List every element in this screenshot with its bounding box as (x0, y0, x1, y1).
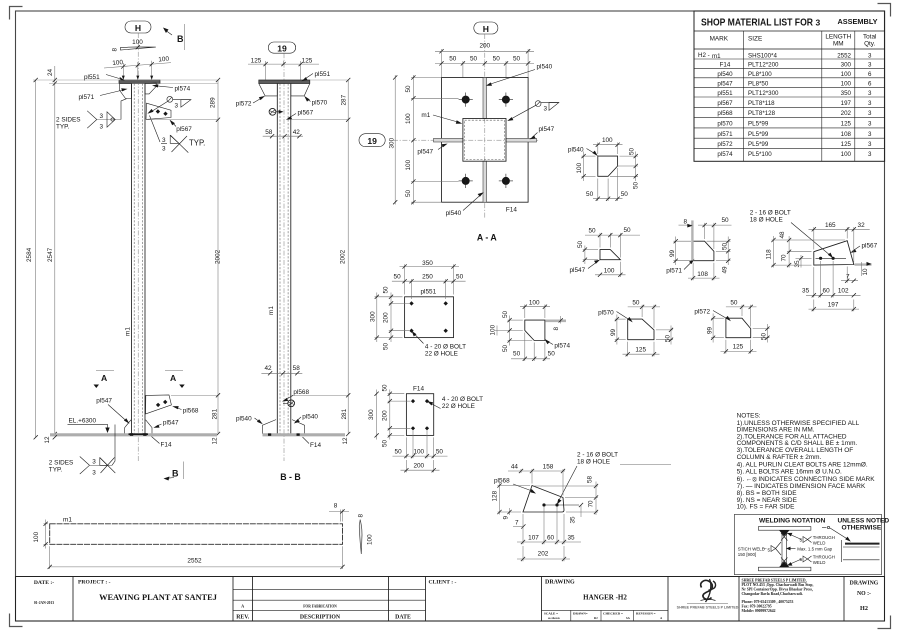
svg-text:B - B: B - B (280, 472, 301, 482)
svg-text:8). BS = BOTH SIDE: 8). BS = BOTH SIDE (737, 490, 798, 497)
svg-text:REV.: REV. (236, 614, 249, 620)
svg-text:108: 108 (841, 131, 852, 138)
A-A section: base plate F14 outline (442, 78, 529, 203)
m1 member: thin plate edge view (needle) (358, 514, 374, 555)
svg-text:44: 44 (511, 464, 519, 471)
svg-text:4 - 20 Ø BOLT: 4 - 20 Ø BOLT (442, 396, 483, 403)
svg-text:35: 35 (567, 535, 575, 542)
svg-text:9: 9 (503, 516, 510, 520)
svg-text:100: 100 (602, 137, 613, 144)
svg-text:pl540: pl540 (717, 71, 733, 78)
svg-text:PLT12*200: PLT12*200 (748, 61, 779, 68)
detail pl567: dim 197 bottom (809, 300, 860, 312)
left elevation: label pl547 (upper left) with leader (96, 398, 129, 424)
A-A section: anchor bolts (459, 93, 513, 189)
svg-text:Fax: 079-30022795: Fax: 079-30022795 (742, 605, 772, 609)
svg-text:50: 50 (633, 181, 640, 189)
svg-text:58: 58 (265, 129, 273, 136)
svg-text:107: 107 (528, 535, 539, 542)
B-B elevation: wing plates pl572/pl570 below plate (259, 84, 310, 96)
svg-text:287: 287 (341, 94, 348, 105)
svg-text:50: 50 (722, 242, 729, 250)
svg-text:281: 281 (341, 408, 348, 419)
svg-text:pl567: pl567 (862, 242, 878, 249)
svg-text:50: 50 (548, 350, 556, 357)
svg-text:pl540: pl540 (537, 64, 553, 71)
left elevation: label pl574 with leader (152, 84, 191, 92)
left elevation: gusset pl567 (right, slanted) (146, 103, 171, 119)
svg-text:pl547: pl547 (417, 149, 433, 156)
svg-text:108: 108 (697, 271, 708, 278)
svg-text:PL8*50: PL8*50 (748, 80, 769, 87)
svg-text:pl568: pl568 (183, 408, 199, 415)
svg-text:202: 202 (841, 110, 852, 117)
svg-text:5: 5 (768, 548, 771, 553)
B-B elevation: dims 42 58 (bottom) (261, 365, 302, 375)
B-B elevation: dims 58 42 (top) (263, 129, 303, 139)
left elevation: section marks A-A (94, 371, 185, 389)
svg-text:Phone: 079-65413309 , 40075253: Phone: 079-65413309 , 40075253 (742, 600, 794, 604)
svg-text:19: 19 (367, 136, 377, 146)
svg-text:MARK: MARK (710, 36, 729, 43)
A-A section: horizontal centerline (393, 139, 538, 141)
svg-text:50: 50 (395, 449, 403, 456)
svg-text:H2 -: H2 - (698, 52, 710, 59)
svg-text:50: 50 (513, 350, 521, 357)
company address block (742, 579, 814, 614)
left elevation: extension lines at plate level (33, 80, 218, 84)
left elevation: section bubble H (125, 21, 151, 33)
A-A section: bubble 19 (359, 134, 385, 147)
m1 member: dim 2552 bottom (48, 546, 345, 569)
welding notation: through weld top (787, 533, 835, 545)
svg-text:3: 3 (100, 113, 104, 120)
A-A section: bubble H (474, 22, 498, 34)
svg-text:FOR FABRICATION: FOR FABRICATION (303, 605, 337, 609)
svg-text:50: 50 (586, 191, 594, 198)
svg-text:100: 100 (112, 59, 124, 67)
detail pl574: dim 100 top (520, 299, 550, 318)
B-B elevation: label pl570 with leader (304, 96, 327, 107)
svg-text:2 - 16 Ø BOLT: 2 - 16 Ø BOLT (577, 451, 618, 458)
svg-text:NO :-: NO :- (857, 591, 871, 597)
svg-text:6). ←⦻ INDICATES CONNECTING SI: 6). ←⦻ INDICATES CONNECTING SIDE MARK (737, 476, 876, 483)
detail pl547: dims 50 50 top (585, 227, 640, 257)
svg-text:WELD: WELD (813, 540, 826, 545)
company logo (677, 579, 739, 610)
svg-text:100: 100 (576, 162, 583, 173)
svg-text:PLT12*300: PLT12*300 (748, 90, 779, 97)
svg-text:pl572: pl572 (694, 309, 710, 316)
svg-text:60: 60 (823, 288, 831, 295)
svg-text:PROJECT : -: PROJECT : - (78, 580, 111, 586)
svg-text:as shown: as shown (548, 616, 560, 620)
svg-text:125: 125 (841, 121, 852, 128)
left elevation: top plate pl551 (119, 80, 160, 84)
svg-text:H2: H2 (860, 605, 868, 612)
svg-text:TYP.: TYP. (49, 467, 63, 474)
svg-text:pl551: pl551 (421, 289, 437, 296)
svg-text:THROUGH: THROUGH (813, 535, 835, 540)
svg-text:100: 100 (841, 80, 852, 87)
svg-text:m1: m1 (268, 306, 275, 315)
svg-text:3: 3 (92, 469, 96, 476)
detail pl568: dims 44 158 top (508, 464, 565, 496)
svg-text:3: 3 (175, 103, 179, 110)
svg-text:F14: F14 (506, 207, 517, 214)
svg-text:m1: m1 (63, 517, 72, 524)
svg-text:pl547: pl547 (717, 80, 733, 87)
svg-text:42: 42 (293, 129, 301, 136)
svg-text:F14: F14 (310, 442, 321, 449)
left elevation: base plate / foundation line (50, 433, 217, 436)
detail pl547: outline (570, 250, 621, 274)
title block texts (34, 580, 879, 621)
notes text block (737, 413, 876, 511)
svg-text:4 - 20 Ø BOLT: 4 - 20 Ø BOLT (425, 343, 466, 350)
svg-text:125: 125 (251, 58, 262, 65)
svg-text:99: 99 (610, 328, 617, 336)
svg-text:SHOP MATERIAL LIST FOR: SHOP MATERIAL LIST FOR (701, 17, 813, 29)
left elevation: label pl571 with leader (79, 88, 128, 101)
svg-text:202: 202 (538, 550, 549, 557)
svg-text:50: 50 (449, 55, 457, 62)
svg-text:5). ALL BOLTS ARE 16mm Ø U.N.O: 5). ALL BOLTS ARE 16mm Ø U.N.O. (737, 469, 842, 476)
svg-text:100: 100 (529, 299, 540, 306)
svg-text:pl571: pl571 (79, 94, 95, 101)
svg-text:8: 8 (553, 327, 560, 331)
svg-text:ASSEMBLY: ASSEMBLY (838, 17, 878, 26)
svg-text:50: 50 (502, 344, 509, 352)
svg-text:300: 300 (389, 137, 396, 148)
svg-text:50: 50 (722, 217, 730, 224)
svg-text:3: 3 (868, 141, 872, 148)
detail pl547: dim 50 left (577, 240, 598, 264)
svg-text:pl572: pl572 (236, 101, 252, 108)
svg-text:50: 50 (405, 85, 412, 93)
svg-text:pl551: pl551 (84, 74, 100, 81)
svg-text:12: 12 (44, 436, 51, 444)
detail pl567: bottom dims 35 60 102 (802, 261, 860, 298)
svg-text:125: 125 (733, 344, 744, 351)
m1 member: dim 100 left (33, 520, 48, 549)
left elevation: column centerline (137, 33, 139, 461)
welding notation: flange plates and web (758, 527, 811, 571)
B-B elevation: bottom brackets pl540 (263, 420, 305, 434)
svg-text:50: 50 (513, 55, 521, 62)
svg-text:158: 158 (543, 464, 554, 471)
svg-text:A - A: A - A (477, 233, 498, 243)
svg-text:3: 3 (868, 90, 872, 97)
svg-text:pl571: pl571 (666, 267, 682, 274)
left elevation: bottom gusset pl547 left (125, 420, 131, 434)
detail pl567: dim 7 (841, 267, 858, 283)
svg-text:01-JAN-2013: 01-JAN-2013 (34, 601, 54, 605)
detail pl574: left dims 50 100 50 (490, 310, 533, 352)
svg-text:50: 50 (623, 227, 631, 234)
B-B elevation: connecting side mark (bottom) (283, 400, 295, 407)
B-B elevation: label pl572 with leader (236, 96, 265, 108)
svg-text:2584: 2584 (26, 247, 33, 262)
svg-text:100: 100 (490, 324, 497, 335)
svg-text:100: 100 (604, 267, 615, 274)
detail F14: bolt note (427, 396, 483, 410)
detail pl551: outline with bolts (405, 289, 454, 338)
welding notation box (734, 515, 889, 575)
detail F14: bottom dims 50 100 50 / 200 (393, 430, 448, 472)
detail pl551: dims 50 250 50 (392, 274, 466, 299)
svg-text:150 [900]: 150 [900] (738, 552, 756, 557)
detail pl574: edge plate 8 (546, 316, 567, 331)
detail pl571: outline (666, 241, 714, 274)
B-B elevation: label pl540 right with leader (294, 414, 319, 424)
svg-text:A: A (241, 604, 244, 609)
svg-text:pl547: pl547 (163, 420, 179, 427)
left elevation: dim line right (289/2002/281) (145, 78, 222, 436)
svg-text:SHS100*4: SHS100*4 (748, 52, 777, 59)
svg-text:125: 125 (302, 58, 313, 65)
detail pl574: outline (525, 320, 571, 349)
svg-text:PL5*99: PL5*99 (748, 141, 769, 148)
detail pl547: dim 100 bottom (595, 262, 626, 277)
detail pl540: outline (568, 147, 618, 177)
svg-text:125: 125 (841, 141, 852, 148)
svg-text:pl570: pl570 (717, 121, 733, 128)
svg-text:300: 300 (370, 311, 377, 322)
svg-text:TYP.: TYP. (56, 124, 70, 131)
svg-text:50: 50 (665, 334, 672, 342)
left elevation: dim 12 right (212, 437, 219, 445)
left elevation: label F14 with leader (152, 437, 172, 449)
svg-text:pl567: pl567 (176, 126, 192, 133)
A-A section: left dims 50 100 100 50 (405, 75, 459, 205)
svg-text:Nr SPI ContainerOpp. Divya Bha: Nr SPI ContainerOpp. Divya Bhaskar Press… (742, 588, 813, 592)
detail pl540: dim 100 left (576, 152, 596, 182)
svg-text:F14: F14 (161, 442, 172, 449)
detail pl570: outline (598, 309, 654, 339)
left elevation: view arrow B (bottom) (164, 462, 184, 481)
svg-text:100: 100 (132, 39, 143, 46)
svg-text:pl567: pl567 (717, 100, 733, 107)
svg-text:pl540: pl540 (236, 416, 252, 423)
detail pl567: dims 165 32 top (809, 222, 870, 262)
svg-text:50: 50 (394, 274, 402, 281)
svg-text:100: 100 (405, 113, 412, 124)
detail pl572: dim 50 right (753, 324, 770, 343)
svg-text:2552: 2552 (837, 52, 851, 59)
svg-text:PL5*99: PL5*99 (748, 121, 769, 128)
B-B elevation: section bubble 19 (268, 42, 295, 54)
svg-text:SHREE PREFAB STEELS P LIMITED: SHREE PREFAB STEELS P LIMITED (677, 606, 739, 610)
left elevation: weld symbol 2 SIDES TYP (top left) (56, 99, 127, 131)
detail pl570: dim 50 right (656, 326, 673, 345)
A-A section: label pl540 (top) with leader (486, 64, 553, 86)
svg-text:250: 250 (422, 274, 433, 281)
svg-text:HANGER -H2: HANGER -H2 (583, 594, 627, 602)
svg-text:50: 50 (383, 342, 390, 350)
detail pl572: dim 99 left (707, 314, 724, 343)
svg-text:100: 100 (33, 531, 40, 542)
detail pl567: edge plate with dim 10 (855, 262, 872, 276)
table rows (698, 52, 872, 158)
left elevation: dim 2547 (47, 247, 57, 436)
svg-text:pl551: pl551 (315, 71, 331, 78)
left elevation: column shaft m1 (132, 84, 146, 434)
svg-text:50: 50 (405, 189, 412, 197)
detail pl568: bottom dims 107 60 35 (517, 507, 581, 544)
svg-text:18 Ø HOLE: 18 Ø HOLE (750, 216, 783, 223)
B-B elevation: label F14 with leader (303, 437, 322, 449)
svg-text:F14: F14 (720, 61, 731, 68)
welding notation: max gap note (786, 546, 833, 551)
svg-text:50: 50 (456, 274, 464, 281)
A-A section: label m1 with leader (421, 112, 462, 124)
detail pl571: dim 50 top (698, 217, 732, 249)
svg-text:289: 289 (210, 97, 217, 108)
svg-text:SHREE PREFAB STEELS P LIMITED,: SHREE PREFAB STEELS P LIMITED, (742, 579, 807, 583)
left elevation: top dims 100 100 (104, 45, 171, 80)
detail pl568: outline (494, 478, 579, 512)
detail pl568: bolt note (557, 451, 671, 505)
svg-text:24: 24 (47, 68, 54, 76)
svg-text:WELD: WELD (813, 560, 826, 565)
svg-text:CLIENT : -: CLIENT : - (429, 580, 457, 586)
svg-text:A: A (101, 373, 107, 383)
B-B elevation: label pl568 with leader (282, 389, 309, 402)
svg-text:pl568: pl568 (293, 389, 309, 396)
left elevation: label pl551 with leader (84, 74, 125, 81)
A-A section: label pl547 (left) with leader (417, 144, 447, 156)
svg-text:2552: 2552 (187, 558, 202, 565)
m1 member elevation: outline (50, 517, 343, 545)
svg-text:10: 10 (862, 268, 869, 276)
left elevation: label pl567 with leader (170, 120, 193, 134)
left elevation: backing plate edge view with dim 8 (112, 39, 156, 52)
svg-text:3: 3 (868, 110, 872, 117)
svg-text:Qty.: Qty. (864, 41, 875, 48)
svg-text:10). FS = FAR SIDE: 10). FS = FAR SIDE (737, 504, 795, 511)
svg-text:WELDING NOTATION: WELDING NOTATION (759, 517, 826, 524)
left elevation: view arrow B (top) (163, 24, 185, 50)
welding notation: stich weld callout (738, 542, 781, 557)
svg-text:281: 281 (212, 408, 219, 419)
svg-text:DATE: DATE (395, 614, 411, 620)
svg-text:100: 100 (158, 56, 170, 64)
svg-text:200: 200 (413, 463, 424, 470)
svg-text:DRAWING: DRAWING (545, 580, 575, 586)
svg-text:pl568: pl568 (717, 110, 733, 117)
svg-text:197: 197 (828, 302, 839, 309)
svg-text:350: 350 (841, 90, 852, 97)
svg-text:35: 35 (802, 288, 810, 295)
svg-text:3: 3 (868, 131, 872, 138)
svg-text:6: 6 (868, 71, 872, 78)
detail pl568: left dims 128 9 7 (492, 482, 531, 529)
svg-text:NOTES:: NOTES: (737, 413, 761, 420)
svg-text:DESCRIPTION: DESCRIPTION (300, 614, 341, 620)
svg-text:pl568: pl568 (494, 478, 510, 485)
svg-text:50: 50 (629, 147, 636, 155)
svg-text:pl572: pl572 (717, 141, 733, 148)
svg-text:RJ: RJ (594, 616, 598, 620)
svg-text:COLUMN & RAFTER ± 2mm.: COLUMN & RAFTER ± 2mm. (737, 454, 822, 461)
svg-text:MM: MM (833, 41, 844, 48)
svg-text:pl570: pl570 (598, 309, 614, 316)
svg-text:PLOT NO.453 ,Opp. Chacharwadi: PLOT NO.453 ,Opp. Chacharwadi Bus Stop, (742, 583, 814, 587)
svg-text:pl547: pl547 (570, 267, 586, 274)
svg-text:60: 60 (547, 535, 555, 542)
svg-text:200: 200 (479, 43, 490, 50)
detail pl551: dim 350 top (400, 260, 460, 295)
svg-text:3: 3 (162, 146, 166, 153)
detail pl572: dim 125 bottom (721, 340, 757, 354)
svg-text:50: 50 (632, 299, 640, 306)
svg-text:49: 49 (722, 266, 729, 274)
svg-text:pl574: pl574 (175, 86, 191, 93)
svg-text:Total: Total (863, 34, 877, 41)
svg-text:3: 3 (100, 124, 104, 131)
detail pl551: bolt note (412, 331, 467, 358)
detail pl572: dim 50 top (726, 299, 757, 326)
A-A section: dims 50 50 50 50 (435, 55, 534, 77)
svg-text:TYP.: TYP. (189, 139, 205, 148)
svg-text:3: 3 (868, 100, 872, 107)
B-B elevation: label pl540 left with leader (236, 416, 263, 425)
left elevation: dim 2584 (26, 78, 38, 440)
svg-text:m1: m1 (421, 112, 430, 119)
svg-text:LENGTH: LENGTH (825, 34, 851, 41)
svg-text:125: 125 (635, 347, 646, 354)
left elevation: weld circle symbol with flag 3 (147, 96, 191, 113)
detail pl570: dim 50 top (628, 299, 660, 327)
left elevation: gusset pl571 (top left) (120, 84, 132, 99)
svg-text:PL8*100: PL8*100 (748, 71, 772, 78)
svg-text:EL.+6300: EL.+6300 (69, 418, 97, 425)
detail pl570: dim 125 bottom (623, 342, 660, 357)
A-A section: vertical plate pl540 strips (483, 78, 487, 203)
svg-text:50: 50 (493, 55, 501, 62)
svg-text:102: 102 (838, 288, 849, 295)
svg-text:pl540: pl540 (302, 414, 318, 421)
svg-text:3: 3 (92, 459, 96, 466)
svg-text:35: 35 (570, 516, 577, 524)
B-B elevation: connecting side mark (top) (269, 108, 283, 115)
svg-text:pl547: pl547 (96, 398, 112, 405)
svg-text:300: 300 (368, 409, 375, 420)
left elevation: label pl568 with leader (172, 406, 199, 414)
svg-text:6: 6 (868, 80, 872, 87)
svg-text:B: B (177, 34, 184, 44)
svg-text:7: 7 (515, 520, 519, 527)
A-A section: horizontal plate pl547 strips (434, 138, 537, 142)
detail pl540: dims 50 50 right (610, 147, 640, 189)
svg-text:pl547: pl547 (539, 126, 555, 133)
svg-text:Mobile: 09099972642: Mobile: 09099972642 (742, 609, 776, 613)
A-A section: label pl540 (bottom) with leader (446, 192, 484, 217)
m1 member: dim 8 top right (329, 503, 349, 522)
svg-text:2 SIDES: 2 SIDES (49, 460, 74, 467)
svg-text:197: 197 (841, 100, 852, 107)
svg-text:DATE :-: DATE :- (34, 580, 54, 586)
A-A section: column m1 square (463, 119, 506, 162)
left elevation: dim 24 (47, 66, 57, 434)
svg-text:5: 5 (800, 537, 803, 542)
A-A section: vertical centerline (484, 34, 486, 218)
B-B elevation: top plate pl551 (259, 80, 310, 84)
left elevation: EL.+6300 note (68, 418, 110, 434)
B-B elevation: label pl551 with leader (302, 71, 331, 81)
svg-text:200: 200 (383, 312, 390, 323)
